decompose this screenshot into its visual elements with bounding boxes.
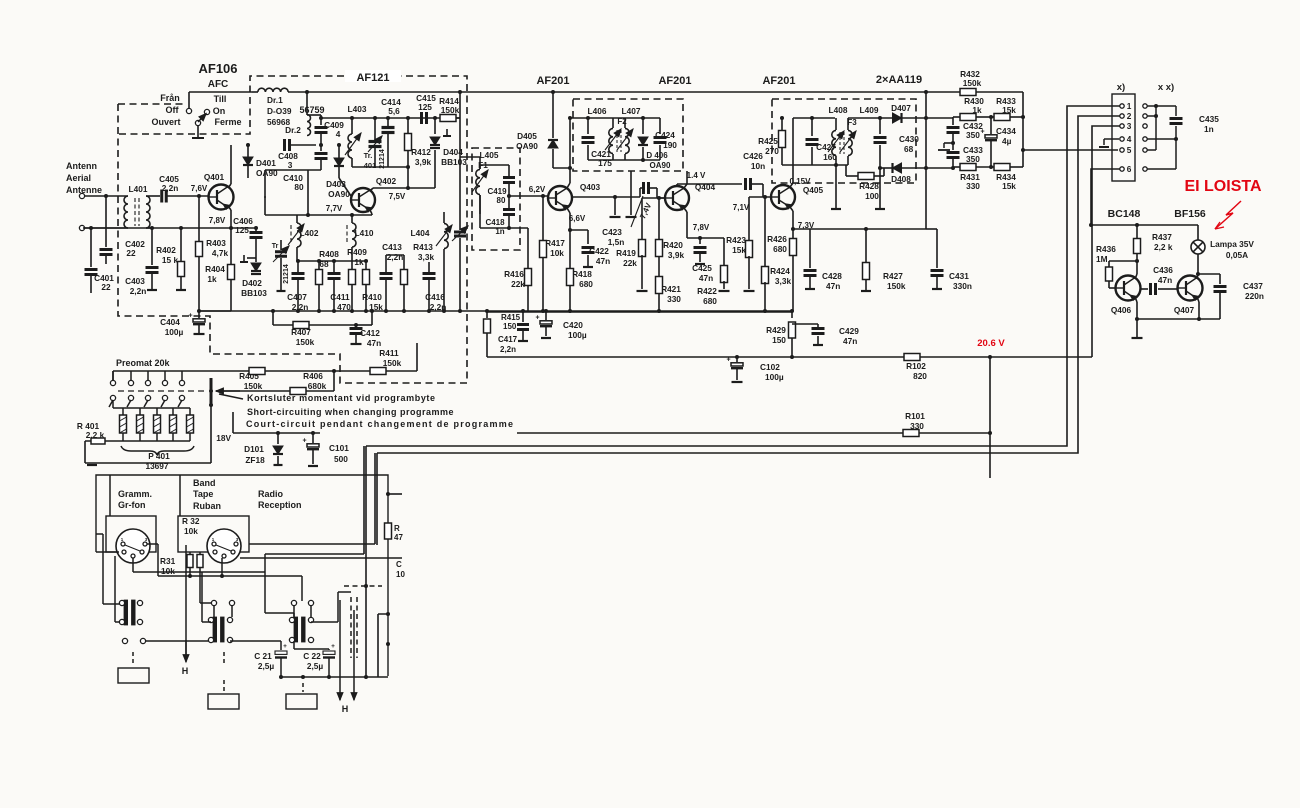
svg-text:L404: L404 — [411, 228, 430, 238]
svg-text:Q407: Q407 — [1174, 305, 1195, 315]
svg-text:Preomat 20k: Preomat 20k — [116, 358, 171, 368]
svg-text:C403: C403 — [125, 276, 145, 286]
svg-text:10k: 10k — [550, 248, 564, 258]
svg-text:22: 22 — [101, 282, 111, 292]
ground lower left — [85, 462, 211, 464]
svg-text:Antenn: Antenn — [66, 161, 97, 171]
svg-text:6: 6 — [1127, 164, 1132, 174]
svg-text:150: 150 — [772, 335, 786, 345]
detector vertical — [925, 92, 927, 229]
pin6 wire — [1091, 169, 1120, 225]
Q407 collector — [1197, 274, 1198, 279]
svg-text:680: 680 — [579, 279, 593, 289]
svg-text:350: 350 — [966, 154, 980, 164]
svg-text:C419: C419 — [487, 187, 507, 196]
svg-text:125: 125 — [235, 225, 249, 235]
svg-text:L408: L408 — [829, 105, 848, 115]
svg-text:1k: 1k — [207, 274, 217, 284]
svg-text:68: 68 — [319, 259, 329, 269]
svg-text:Gramm.: Gramm. — [118, 489, 152, 499]
svg-text:BF156: BF156 — [1174, 208, 1206, 220]
wire rail AF201 supply — [460, 91, 926, 93]
svg-text:+: + — [535, 315, 539, 322]
svg-text:1: 1 — [1127, 101, 1132, 111]
pin2 wire long — [377, 116, 1120, 453]
variable cap osc — [454, 231, 466, 234]
svg-text:Off: Off — [166, 105, 180, 115]
dashed box IF tank 3 — [772, 99, 916, 183]
svg-text:R427: R427 — [883, 271, 903, 281]
svg-text:680: 680 — [773, 244, 787, 254]
wire R403 R404 bottom — [199, 310, 231, 312]
svg-text:OA90: OA90 — [256, 168, 278, 178]
svg-text:1n: 1n — [1204, 124, 1214, 134]
svg-text:Radio: Radio — [258, 489, 284, 499]
svg-text:BC148: BC148 — [1108, 208, 1141, 220]
svg-text:+: + — [302, 438, 306, 445]
H arrow 1 — [185, 545, 187, 655]
svg-text:R436: R436 — [1096, 244, 1116, 254]
svg-text:Tape: Tape — [193, 489, 213, 499]
svg-text:270: 270 — [765, 146, 779, 156]
svg-text:R408: R408 — [319, 249, 339, 259]
svg-text:125: 125 — [418, 102, 432, 112]
svg-text:0,05A: 0,05A — [1226, 250, 1248, 260]
svg-text:BB103: BB103 — [241, 288, 267, 298]
switch bar — [210, 378, 213, 405]
svg-text:7,1V: 7,1V — [733, 203, 750, 212]
svg-text:Gr-fon: Gr-fon — [118, 500, 146, 510]
rail y312 middle — [487, 311, 792, 313]
svg-text:Reception: Reception — [258, 500, 302, 510]
svg-text:47n: 47n — [1158, 275, 1172, 285]
svg-text:1.4 V: 1.4 V — [687, 171, 706, 180]
tank bottom wire — [352, 166, 408, 168]
svg-text:D 406: D 406 — [646, 151, 668, 160]
svg-text:D401: D401 — [256, 158, 276, 168]
svg-text:Tr: Tr — [272, 243, 279, 250]
svg-text:2,2n: 2,2n — [130, 286, 147, 296]
switch contacts below T1 — [122, 638, 127, 643]
svg-text:R429: R429 — [766, 325, 786, 335]
svg-text:2,5µ: 2,5µ — [307, 661, 324, 671]
svg-text:10k: 10k — [161, 566, 175, 576]
amp top rail — [1091, 224, 1198, 226]
svg-text:P 401: P 401 — [148, 451, 170, 461]
svg-text:R410: R410 — [362, 292, 382, 302]
svg-text:7,8V: 7,8V — [693, 223, 710, 232]
svg-text:150: 150 — [503, 322, 517, 331]
svg-text:R424: R424 — [770, 266, 790, 276]
svg-text:500: 500 — [334, 454, 348, 464]
svg-text:L401: L401 — [129, 184, 148, 194]
svg-text:L410: L410 — [355, 228, 374, 238]
tank2 ground column 2 — [630, 171, 632, 215]
audio transformer T2 — [213, 617, 217, 642]
svg-text:21214: 21214 — [379, 149, 386, 169]
svg-text:1k: 1k — [354, 257, 364, 267]
svg-text:C102: C102 — [760, 362, 780, 372]
svg-text:C: C — [396, 560, 402, 569]
svg-text:4: 4 — [1127, 134, 1132, 144]
Q403 emitter — [567, 208, 570, 213]
wire coupling Q404 to Q405 — [677, 183, 742, 185]
Q406 emitter — [1135, 297, 1137, 302]
pointer line to switch — [219, 394, 243, 399]
svg-text:47n: 47n — [367, 338, 381, 348]
svg-text:18V: 18V — [216, 433, 231, 443]
svg-text:L406: L406 — [588, 106, 607, 116]
svg-text:3,3k: 3,3k — [775, 276, 792, 286]
preomat top rail — [112, 371, 114, 380]
svg-text:10: 10 — [396, 570, 405, 579]
svg-text:L405: L405 — [480, 150, 499, 160]
svg-text:Lampa 35V: Lampa 35V — [1210, 239, 1254, 249]
svg-text:R425: R425 — [758, 136, 778, 146]
wire DIN1 pin5 bus — [132, 558, 134, 572]
wire DIN2 to right bus y544 — [249, 543, 375, 545]
svg-text:Q406: Q406 — [1111, 305, 1132, 315]
resistor R31 body — [189, 552, 191, 554]
svg-text:AFC: AFC — [208, 79, 229, 90]
svg-text:R417: R417 — [545, 238, 565, 248]
Q401 emitter wire — [228, 206, 231, 210]
svg-text:C423: C423 — [602, 227, 622, 237]
svg-text:Short-circuiting when changing: Short-circuiting when changing programme — [247, 407, 454, 417]
svg-text:Från: Från — [160, 93, 180, 103]
svg-text:R413: R413 — [413, 242, 433, 252]
svg-text:3,9k: 3,9k — [415, 157, 432, 167]
xx bus wiring — [1147, 105, 1156, 107]
svg-text:R409: R409 — [347, 247, 367, 257]
stage3 bottom rail — [810, 228, 926, 230]
pin1 wire long — [366, 106, 1120, 446]
svg-text:4µ: 4µ — [1002, 136, 1012, 146]
svg-text:150k: 150k — [383, 358, 402, 368]
wire DIN1 pin3 bus — [147, 543, 158, 545]
svg-text:Court-circuit pendant changeme: Court-circuit pendant changement de prog… — [246, 419, 514, 429]
svg-text:3,9k: 3,9k — [668, 250, 685, 260]
wire box edge to DIN1 — [96, 551, 119, 553]
svg-text:R404: R404 — [205, 264, 225, 274]
vertical drop from R102 node — [989, 357, 991, 478]
tank3 bottom wiring — [781, 160, 783, 165]
wire L405 top loop — [480, 165, 509, 169]
wire left feed to T1 top — [96, 533, 103, 535]
pin3 wire long — [1092, 126, 1120, 357]
Q401 collector wire — [228, 184, 231, 188]
svg-text:15k: 15k — [732, 245, 746, 255]
svg-text:80: 80 — [294, 182, 304, 192]
svg-text:6,2V: 6,2V — [529, 185, 546, 194]
svg-text:D405: D405 — [517, 131, 537, 141]
tank2 ground column 1 — [614, 197, 616, 215]
svg-text:160: 160 — [823, 152, 837, 162]
wire into right edge resistor — [388, 493, 402, 495]
svg-text:+: + — [980, 129, 984, 136]
svg-text:330: 330 — [667, 294, 681, 304]
H arrows bottom — [339, 600, 341, 700]
svg-text:R 32: R 32 — [182, 516, 200, 526]
audio transformer T1 — [124, 600, 128, 625]
resistor R32 body — [199, 552, 201, 554]
svg-text:150k: 150k — [296, 337, 315, 347]
svg-text:Dr.2: Dr.2 — [285, 125, 301, 135]
input selector box — [96, 475, 388, 676]
svg-text:AF121: AF121 — [356, 72, 389, 84]
svg-text:150k: 150k — [887, 281, 906, 291]
svg-text:C407: C407 — [287, 292, 307, 302]
wire Q403 collector tap — [572, 196, 640, 198]
svg-text:10k: 10k — [184, 526, 198, 536]
svg-text:D407: D407 — [891, 103, 911, 113]
wire T3 right to dashed bus — [311, 621, 338, 623]
DIN connector 1 — [106, 516, 156, 552]
svg-text:100µ: 100µ — [568, 330, 587, 340]
svg-text:47: 47 — [394, 533, 403, 542]
svg-text:R102: R102 — [906, 361, 926, 371]
clipped wire C — [240, 557, 402, 559]
svg-text:47n: 47n — [596, 256, 610, 266]
svg-text:D408: D408 — [891, 174, 911, 184]
dashed box L405 F1 — [472, 148, 520, 250]
svg-text:D402: D402 — [242, 278, 262, 288]
bottom rail selector — [281, 676, 388, 678]
wire to connector pin5 — [1023, 149, 1118, 151]
rail y311 AGC main — [199, 310, 793, 312]
svg-text:L403: L403 — [348, 104, 367, 114]
svg-text:R415: R415 — [501, 313, 521, 322]
svg-text:330n: 330n — [953, 281, 972, 291]
coil Dr.2 — [307, 115, 311, 136]
svg-text:H: H — [342, 704, 349, 714]
bank bottom rail — [108, 440, 190, 442]
Q405 collector — [790, 183, 793, 187]
svg-text:AF106: AF106 — [198, 61, 237, 76]
Q406 collector — [1135, 274, 1137, 279]
svg-text:Till: Till — [214, 94, 227, 104]
svg-text:R: R — [394, 524, 400, 533]
svg-text:15 k: 15 k — [162, 255, 179, 265]
svg-text:Q403: Q403 — [580, 182, 601, 192]
svg-text:1M: 1M — [1096, 254, 1108, 264]
speaker box 3 — [286, 694, 317, 709]
svg-text:80: 80 — [497, 196, 506, 205]
output node vertical — [1022, 92, 1024, 167]
svg-text:150k: 150k — [441, 105, 460, 115]
svg-text:R421: R421 — [661, 284, 681, 294]
svg-text:D404: D404 — [443, 147, 463, 157]
svg-text:2×AA119: 2×AA119 — [876, 74, 922, 86]
pin4 chassis — [1104, 138, 1119, 140]
svg-text:C431: C431 — [949, 271, 969, 281]
speaker box 1 — [132, 652, 134, 666]
svg-text:2: 2 — [1127, 111, 1132, 121]
svg-text:R402: R402 — [156, 245, 176, 255]
svg-text:+: + — [188, 313, 192, 320]
svg-text:2,2 k: 2,2 k — [1154, 242, 1173, 252]
audio transformer T3 — [294, 617, 298, 642]
wire antenna to L401 — [85, 195, 122, 197]
amp ground — [1136, 319, 1138, 337]
svg-text:22: 22 — [126, 248, 136, 258]
svg-text:R419: R419 — [616, 248, 636, 258]
speaker box 2 — [223, 652, 225, 666]
svg-text:150k: 150k — [244, 381, 263, 391]
svg-text:C434: C434 — [996, 126, 1016, 136]
Q402 emitter join — [370, 210, 372, 214]
svg-text:47n: 47n — [699, 273, 713, 283]
svg-text:7,5V: 7,5V — [389, 192, 406, 201]
svg-text:820: 820 — [913, 371, 927, 381]
Q402 collector — [370, 188, 373, 191]
svg-text:47n: 47n — [826, 281, 840, 291]
svg-text:C101: C101 — [329, 443, 349, 453]
svg-text:R411: R411 — [379, 348, 399, 358]
wire DIN2 center pin — [221, 558, 223, 576]
wire to T1 lower — [114, 556, 116, 622]
svg-text:2,5µ: 2,5µ — [258, 661, 275, 671]
svg-text:6,6V: 6,6V — [569, 214, 586, 223]
svg-text:7,6V: 7,6V — [191, 184, 208, 193]
svg-text:330: 330 — [966, 181, 980, 191]
wire D403 to Q402 base — [338, 175, 340, 178]
svg-text:Ruban: Ruban — [193, 501, 221, 511]
svg-text:Q405: Q405 — [803, 185, 824, 195]
chassis mark mid — [944, 142, 953, 144]
svg-text:Q401: Q401 — [204, 172, 225, 182]
rail y118 in AF121 — [321, 117, 460, 119]
svg-text:EI LOISTA: EI LOISTA — [1184, 178, 1261, 195]
Q403 collector — [567, 183, 570, 188]
vertical bus right lower — [365, 586, 367, 677]
svg-text:R403: R403 — [206, 238, 226, 248]
svg-text:C 22: C 22 — [303, 651, 321, 661]
brace P401 — [121, 446, 194, 455]
svg-text:R412: R412 — [411, 147, 431, 157]
preomat resistor bank P401 — [123, 407, 190, 409]
svg-text:C412: C412 — [360, 328, 380, 338]
dashed stubs horizontal — [344, 585, 382, 587]
svg-text:Band: Band — [193, 478, 216, 488]
svg-text:Kortsluter momentant vid progr: Kortsluter momentant vid programbyte — [247, 393, 436, 403]
svg-text:C 21: C 21 — [254, 651, 272, 661]
svg-text:3: 3 — [288, 160, 293, 170]
DIN connector 2 — [178, 516, 249, 552]
svg-text:100µ: 100µ — [765, 372, 784, 382]
svg-text:R422: R422 — [697, 286, 717, 296]
svg-text:22k: 22k — [511, 279, 525, 289]
svg-text:C429: C429 — [839, 326, 859, 336]
svg-text:F3: F3 — [847, 118, 857, 127]
wire L405 out to Q403 base — [509, 195, 548, 197]
svg-text:5: 5 — [1127, 145, 1132, 155]
antenna terminals — [79, 193, 84, 198]
svg-text:AF201: AF201 — [658, 75, 691, 87]
svg-text:2,2n: 2,2n — [162, 183, 179, 193]
section label AF121 — [345, 70, 401, 82]
wire y576 to T3 top — [222, 575, 302, 577]
svg-text:R426: R426 — [767, 234, 787, 244]
coil L405 variable — [476, 169, 480, 194]
svg-text:+: + — [283, 643, 287, 650]
svg-text:3,3k: 3,3k — [418, 252, 435, 262]
svg-text:C430: C430 — [899, 134, 919, 144]
wire bus y554 to T3 — [265, 553, 364, 555]
svg-text:L407: L407 — [622, 106, 641, 116]
svg-text:10n: 10n — [751, 161, 765, 171]
wire det to R430 row — [926, 117, 953, 119]
svg-text:x x): x x) — [1158, 82, 1174, 93]
svg-text:220n: 220n — [1245, 291, 1264, 301]
dashed box IF tank 2 — [573, 99, 683, 171]
svg-text:C413: C413 — [382, 242, 402, 252]
svg-text:68: 68 — [904, 144, 914, 154]
svg-text:C418: C418 — [485, 218, 505, 227]
Q407 emitter — [1197, 297, 1199, 302]
wire switch to AF121 rail — [188, 92, 190, 109]
Q404 base bias column — [642, 197, 665, 199]
svg-text:3: 3 — [1127, 121, 1132, 131]
svg-text:Aerial: Aerial — [66, 173, 91, 183]
svg-text:AF201: AF201 — [536, 75, 569, 87]
svg-text:21214: 21214 — [283, 264, 290, 284]
svg-text:5,6: 5,6 — [388, 106, 400, 116]
svg-text:+: + — [726, 357, 730, 364]
svg-text:ZF18: ZF18 — [245, 455, 265, 465]
Q404 emitter — [684, 208, 687, 212]
svg-text:R31: R31 — [160, 556, 176, 566]
svg-text:7,7V: 7,7V — [326, 204, 343, 213]
svg-text:4: 4 — [336, 129, 341, 139]
wire C410 to L402 — [265, 169, 321, 171]
preomat terminals row2 with contacts — [110, 395, 115, 400]
wire T2 left loop — [202, 621, 211, 623]
svg-text:x): x) — [1117, 82, 1125, 93]
AFC on/off switch — [186, 108, 191, 113]
svg-text:+: + — [331, 643, 335, 650]
svg-text:7,8V: 7,8V — [209, 216, 226, 225]
wire T1 bottom to T2 — [145, 640, 212, 642]
svg-text:Q402: Q402 — [376, 176, 397, 186]
svg-text:C436: C436 — [1153, 265, 1173, 275]
svg-text:22k: 22k — [623, 258, 637, 268]
svg-text:C416: C416 — [425, 292, 445, 302]
svg-text:C404: C404 — [160, 317, 180, 327]
svg-text:350: 350 — [966, 130, 980, 140]
preomat terminals row1 — [112, 371, 114, 380]
bus corner verticals — [365, 446, 367, 586]
svg-text:Dr.1: Dr.1 — [267, 95, 283, 105]
wire tank2 to Q404 — [649, 187, 657, 189]
svg-text:1,5n: 1,5n — [608, 237, 625, 247]
svg-text:100µ: 100µ — [165, 327, 184, 337]
svg-text:R428: R428 — [859, 181, 879, 191]
svg-text:20.6 V: 20.6 V — [977, 338, 1005, 349]
svg-text:Ouvert: Ouvert — [151, 117, 180, 127]
lower antenna rail 7,8V — [83, 227, 256, 229]
svg-text:Ferme: Ferme — [214, 117, 241, 127]
svg-text:C437: C437 — [1243, 281, 1263, 291]
svg-text:150k: 150k — [963, 78, 982, 88]
svg-text:C426: C426 — [743, 151, 763, 161]
svg-text:R416: R416 — [504, 269, 524, 279]
svg-text:15k: 15k — [1002, 181, 1016, 191]
svg-text:R418: R418 — [572, 269, 592, 279]
wire 7,3V emitter tap — [793, 228, 810, 230]
dashed switch line — [118, 390, 205, 392]
svg-text:47n: 47n — [843, 336, 857, 346]
